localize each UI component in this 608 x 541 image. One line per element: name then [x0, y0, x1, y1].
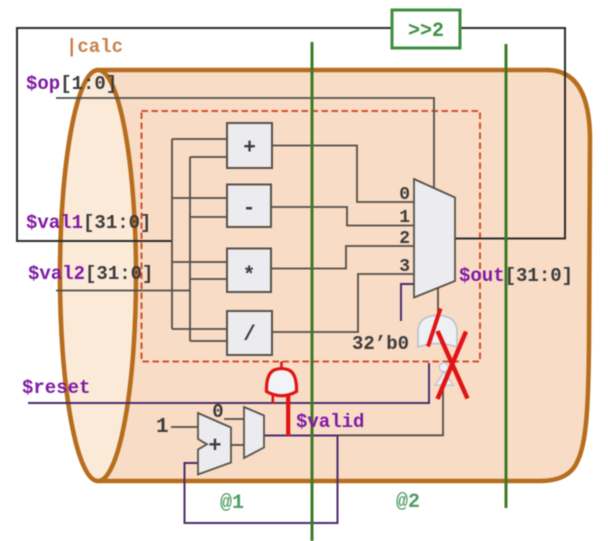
wire multiplier * output to mux input 2	[271, 246, 414, 269]
svg-text:1: 1	[156, 416, 169, 439]
wire inverter output down	[338, 385, 443, 435]
wire >>2 feedback loop right	[460, 28, 565, 239]
node $val1 bus	[171, 139, 173, 329]
mux U1 (result select)	[414, 179, 455, 298]
svg-text:@1: @1	[220, 492, 244, 515]
svg-text:$reset: $reset	[22, 377, 90, 399]
gate inverter triangle	[435, 372, 453, 385]
svg-text:1: 1	[399, 208, 410, 228]
svg-text:$op[1:0]: $op[1:0]	[26, 73, 117, 95]
svg-text:$valid: $valid	[296, 411, 364, 433]
mux U2 (valid select)	[244, 407, 264, 458]
gate dome (crossed-out and gate)	[418, 316, 457, 348]
svg-text:$out[31:0]: $out[31:0]	[459, 265, 573, 287]
or-gate U3 (red, $reset | done)	[266, 362, 296, 437]
svg-text:2: 2	[399, 229, 410, 249]
multiplier box *	[227, 249, 271, 293]
pipeline left end-cap ellipse	[60, 70, 136, 481]
red slash over dome gate	[428, 309, 441, 347]
wire counter feedback loop	[185, 436, 338, 524]
svg-text:+: +	[243, 137, 256, 160]
wire adder + output to mux input 0	[272, 146, 414, 203]
wire mux bottom stub	[437, 287, 439, 316]
dashed hierarchy boundary	[142, 111, 481, 362]
stage boundary @2 line	[505, 44, 508, 508]
svg-text:$val2[31:0]: $val2[31:0]	[28, 263, 153, 285]
svg-text:|calc: |calc	[66, 36, 123, 58]
svg-text:32’b0: 32’b0	[352, 333, 409, 355]
wire subtractor - inputs	[172, 197, 227, 199]
stage boundary @1 line	[311, 42, 314, 541]
svg-text:/: /	[243, 324, 256, 347]
wire mux default select (32'b0 input)	[401, 284, 414, 321]
pipeline |calc cylinder body	[60, 70, 590, 481]
svg-text:0: 0	[399, 185, 410, 205]
wire adder to valid mux	[231, 444, 244, 446]
adder ALU (counter +1)	[198, 413, 231, 475]
wire subtractor - output to mux input 1	[271, 207, 414, 226]
wire adder + inputs	[172, 138, 227, 140]
wire constant 0 to valid mux	[224, 418, 244, 420]
wire divider / inputs	[172, 328, 227, 330]
divider box /	[227, 311, 272, 355]
svg-text:+: +	[208, 434, 221, 459]
wire $val2 input	[56, 290, 190, 292]
wire >>2 feedback loop left	[17, 28, 392, 241]
svg-text:@2: @2	[396, 491, 420, 514]
wire constant 1 to adder	[171, 426, 198, 428]
svg-text:-: -	[243, 198, 256, 221]
svg-text:$val1[31:0]: $val1[31:0]	[26, 212, 151, 234]
gate inverter bubble	[439, 363, 448, 372]
wire $op	[56, 98, 434, 189]
wire $valid (purple)	[264, 435, 339, 437]
wire multiplier * inputs	[172, 261, 227, 263]
red X over inverter	[438, 331, 468, 399]
wire $out	[455, 238, 566, 240]
svg-text:3: 3	[399, 257, 410, 277]
wire $reset (purple)	[28, 363, 429, 403]
subtractor box -	[227, 185, 271, 228]
>>2 alignment box	[392, 10, 460, 48]
wire divider / output to mux input 3	[272, 274, 414, 332]
node $val2 bus	[189, 157, 191, 341]
adder box +	[227, 123, 272, 168]
svg-text:0: 0	[212, 401, 223, 423]
svg-text:*: *	[243, 265, 256, 288]
svg-text:>>2: >>2	[408, 20, 444, 43]
